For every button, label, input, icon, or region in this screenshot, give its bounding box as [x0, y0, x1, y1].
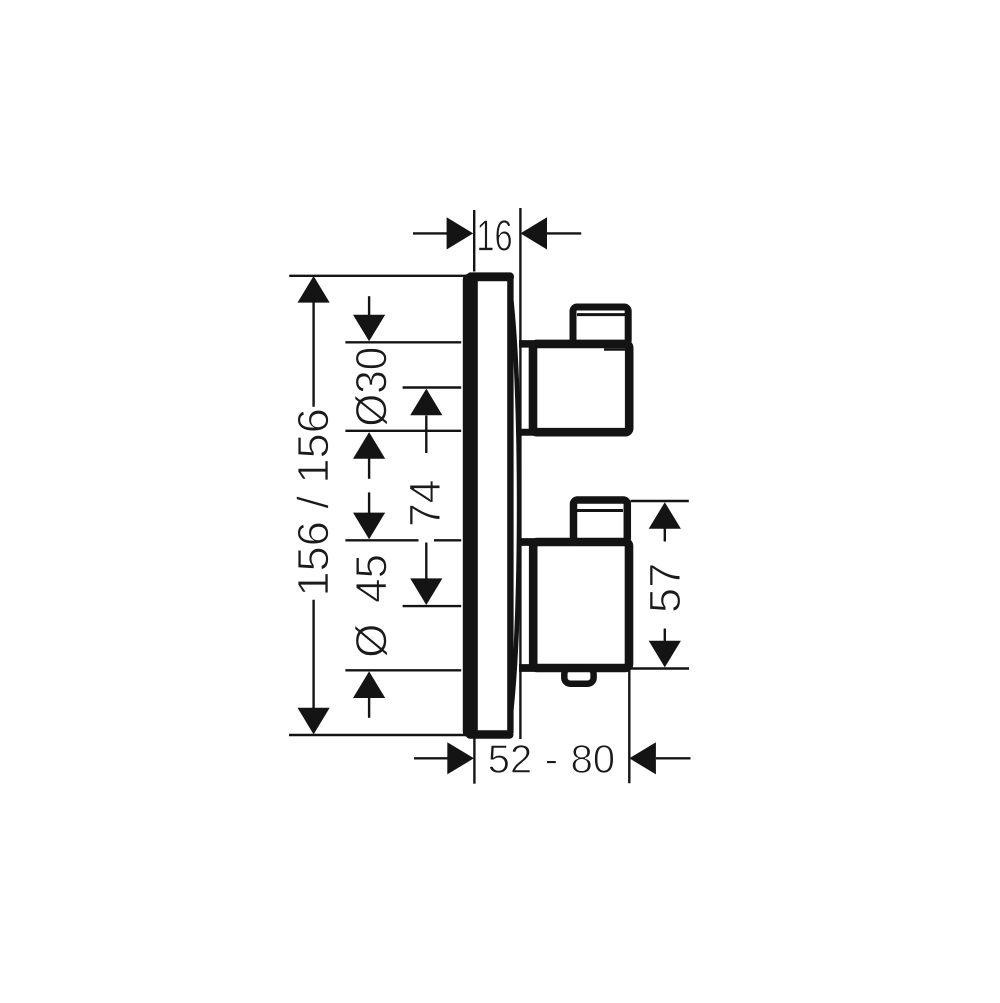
ext line 16 right (long, down along plate) [519, 208, 521, 739]
lower knob [519, 500, 629, 684]
arrow dia30 top (points down) [353, 315, 385, 342]
arrow dia45 bottom (points up) [353, 671, 385, 698]
dim line 156 lower segment [312, 600, 314, 709]
arrow 57 top (points up) [649, 502, 681, 529]
text 57 [650, 565, 681, 611]
ext line dia45 bottom [345, 669, 461, 671]
arrow 156 top (points up) [298, 276, 330, 303]
lower knob step box [574, 500, 628, 542]
dia45 top arrow tail [368, 492, 370, 513]
lower knob bottom tab [564, 668, 593, 684]
upper knob box inner line [577, 313, 625, 316]
upper knob body inner line [604, 348, 626, 351]
arrow 52-80 right (points left) [629, 742, 656, 774]
arrow 156 bottom (points down) [298, 708, 330, 735]
upper knob top edge extension to plate [519, 340, 540, 348]
text 156/156 [296, 410, 328, 593]
plate right bulge arc [511, 293, 520, 717]
dimension texts [296, 220, 680, 773]
arrow 74 top (points up) [410, 389, 442, 416]
text dia30 [355, 348, 388, 425]
57 bottom arrow tail [664, 629, 666, 642]
dia30 bottom arrow tail [368, 459, 370, 479]
57 top arrow tail [664, 529, 666, 542]
arrow 52-80 left (points right) [447, 742, 474, 774]
upper knob body [533, 344, 629, 432]
arrow 16 left (points right) [447, 217, 474, 249]
ext line dia45 top (split around 74 tail) [345, 539, 418, 541]
plate bottom edge [466, 730, 514, 739]
ext line 74 top [403, 386, 462, 388]
dim line 16 left tail [413, 232, 448, 234]
plate right inner face [507, 277, 513, 733]
ext line 156 top [289, 275, 469, 277]
text 52 - 80 [489, 745, 613, 773]
plate top edge [467, 272, 515, 281]
lower knob box inner line [577, 509, 623, 512]
dim line 52-80 left tail [414, 757, 448, 759]
ext line 156 bottom [289, 734, 470, 736]
plate left band [463, 274, 478, 737]
dia45 bottom arrow tail [368, 698, 370, 718]
upper knob [519, 307, 629, 432]
text 16 [479, 220, 511, 251]
arrow 57 bottom (points down) [649, 641, 681, 668]
74 bottom arrow tail [425, 543, 427, 579]
arrow 74 bottom (points down) [410, 578, 442, 605]
74 top arrow tail [425, 416, 427, 454]
arrow dia45 top (points down) [353, 513, 385, 540]
upper knob step box [573, 307, 628, 344]
arrow dia30 bottom (points up) [353, 432, 385, 459]
text dia45 [355, 556, 388, 657]
ext line 52-80 right [628, 670, 630, 783]
ext line 16 left [473, 210, 475, 272]
dim line 52-80 right tail [656, 757, 691, 759]
ext line 57 bottom [631, 667, 689, 669]
arrow 16 right (points left) [520, 217, 547, 249]
ext line dia30 top [345, 341, 461, 343]
dim line 156 upper segment [312, 301, 314, 407]
ext line 74 bottom [403, 605, 462, 607]
ext line dia30 bottom [345, 430, 461, 432]
plate (escutcheon side view) [463, 272, 514, 738]
ext line 52-80 left [473, 738, 475, 784]
dim line 16 right tail [546, 232, 581, 234]
upper knob bottom edge extension to plate [519, 429, 540, 436]
lower knob top edge extension to plate [519, 538, 540, 546]
lower knob bottom edge extension to plate [519, 664, 540, 672]
text 74 [410, 481, 440, 525]
lower knob body [533, 542, 629, 668]
ext line 57 top [631, 500, 689, 502]
dia30 top arrow tail [368, 296, 370, 315]
